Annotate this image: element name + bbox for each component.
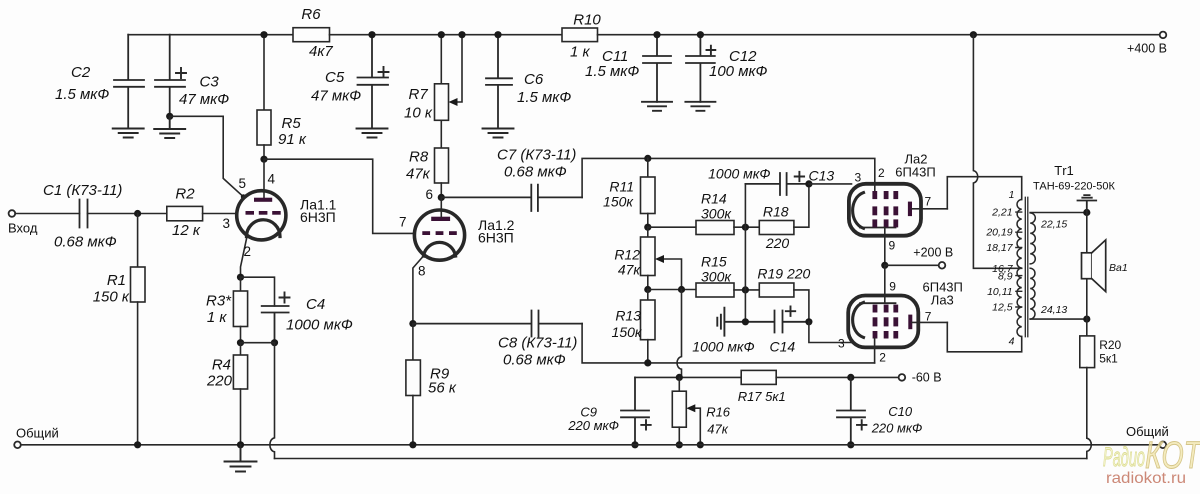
svg-text:R19 220: R19 220 [757, 266, 810, 282]
svg-text:9: 9 [889, 239, 896, 253]
svg-text:3: 3 [838, 337, 845, 351]
resistor R8 [440, 120, 442, 148]
svg-text:Радио: Радио [1103, 442, 1145, 472]
plus C10 [857, 420, 866, 429]
ground C11 [642, 102, 672, 111]
wire top rail right segment [598, 34, 1160, 36]
svg-text:220: 220 [206, 373, 233, 390]
node R7 wiper rail [458, 31, 465, 38]
wire top rail middle segment [330, 34, 563, 36]
svg-text:R16: R16 [706, 405, 731, 420]
node R16 top [676, 374, 683, 381]
resistor R15 [696, 283, 734, 297]
svg-text:С4: С4 [306, 296, 325, 313]
svg-text:1: 1 [1009, 189, 1015, 201]
node R1 bottom [134, 441, 141, 448]
svg-text:6П43П: 6П43П [895, 165, 935, 180]
node R16 bottom [676, 441, 683, 448]
svg-text:150к: 150к [603, 194, 634, 210]
wire anode La3 to transformer tap4 [947, 322, 1021, 351]
svg-text:100 мкФ: 100 мкФ [709, 63, 768, 80]
resistor R3 [240, 277, 242, 291]
svg-text:С13: С13 [809, 168, 835, 184]
svg-text:R8: R8 [409, 149, 429, 166]
resistor R10 [562, 28, 598, 42]
capacitor C11 [643, 35, 671, 102]
resistor R19 [759, 283, 794, 297]
ground C3 [154, 116, 185, 138]
wire pin9 La3 [884, 265, 886, 303]
resistor R13 [647, 290, 649, 301]
terminal Vhod (input) [9, 210, 16, 217]
ground inverted at secondary [1078, 195, 1097, 212]
cathode arc La3 [853, 302, 864, 337]
plus C12 [707, 46, 716, 55]
wire C4 bottom to common bus with hop [270, 343, 275, 459]
grid dashes La2 [872, 191, 898, 227]
speaker Ba1 [1086, 213, 1088, 320]
node R5 bottom / anode La1.1 [260, 156, 267, 163]
node R7 top [438, 31, 445, 38]
ground main [225, 445, 257, 472]
svg-text:220 мкФ: 220 мкФ [567, 418, 619, 433]
svg-text:R13: R13 [615, 308, 641, 324]
plus C5 [379, 67, 389, 77]
svg-text:12,5: 12,5 [992, 302, 1013, 314]
sideways ground C14 [717, 308, 724, 336]
svg-text:47к: 47к [406, 166, 431, 183]
svg-text:Вход: Вход [8, 221, 38, 236]
svg-text:150 к: 150 к [93, 289, 130, 306]
svg-text:5: 5 [238, 176, 246, 191]
wire anode La1.1 to grid La1.2 [264, 159, 415, 233]
svg-text:220 мкФ: 220 мкФ [871, 421, 923, 436]
svg-text:3: 3 [855, 171, 862, 185]
capacitor C2 [114, 35, 144, 129]
resistor R6 [293, 28, 330, 42]
resistor R4 [240, 343, 242, 355]
plus C14 [786, 307, 795, 316]
svg-text:22,15: 22,15 [1040, 219, 1067, 231]
wire second common bus [275, 458, 1087, 460]
svg-text:С1 (К73-11): С1 (К73-11) [43, 182, 122, 199]
wire C3 to pin 5 of La1.1 [170, 116, 244, 197]
svg-text:300к: 300к [701, 269, 732, 285]
ground C6 [483, 129, 514, 138]
wire +400 feed down with hop [973, 35, 1021, 269]
node C6 top [494, 31, 501, 38]
transformer core [1025, 197, 1028, 336]
node R9 bottom [409, 441, 416, 448]
node C9 bottom [631, 441, 638, 448]
plus C9 [641, 420, 650, 429]
svg-text:18,17: 18,17 [986, 242, 1013, 254]
svg-text:R14: R14 [701, 191, 727, 207]
svg-text:4к7: 4к7 [309, 43, 333, 60]
capacitor C4 [262, 306, 289, 343]
node pin5 [241, 194, 246, 199]
svg-text:R10: R10 [573, 12, 601, 29]
node C10 top [847, 374, 854, 381]
node pin6 [438, 194, 445, 201]
svg-text:R4: R4 [212, 357, 231, 374]
svg-text:+200 В: +200 В [913, 246, 953, 260]
wire R3 bottom to C4 bottom [241, 342, 275, 344]
svg-text:4: 4 [268, 172, 276, 187]
capacitor C12 [686, 35, 715, 102]
svg-text:2,21: 2,21 [991, 206, 1012, 218]
watermark RadioKOT [1103, 435, 1200, 487]
svg-text:1.5 мкФ: 1.5 мкФ [55, 86, 109, 103]
svg-text:Общий: Общий [16, 426, 59, 441]
grid dashes La1.2 [422, 231, 457, 235]
svg-text:R3*: R3* [206, 293, 232, 310]
wire cathode La1.2 down to R9 node [413, 257, 423, 324]
wire C8 to lower grid line [582, 324, 875, 363]
resistor R18 [759, 221, 794, 235]
svg-text:24,13: 24,13 [1040, 304, 1067, 316]
svg-text:6Н3П: 6Н3П [478, 230, 514, 246]
resistor R20 [1086, 319, 1088, 336]
transformer secondary winding 22,15 [1030, 213, 1035, 264]
anode bar La1.1 [254, 198, 272, 202]
terminal +200V [939, 262, 946, 269]
svg-text:7: 7 [925, 310, 932, 324]
wire to cathode pin3 La3 [809, 322, 852, 343]
wire junction to R15 [648, 289, 696, 291]
wire anode La2 pin7 [912, 208, 947, 210]
resistor R17 [741, 370, 776, 384]
node cathode La1.1 [237, 274, 244, 281]
capacitor C3 [155, 35, 185, 117]
transformer secondary winding 24,13 [1030, 268, 1035, 319]
terminal -60V [899, 374, 906, 381]
capacitor C10 [837, 377, 865, 444]
svg-text:5к1: 5к1 [1099, 352, 1118, 366]
node C12 top [697, 31, 704, 38]
potentiometer R7 [440, 35, 442, 84]
svg-text:1.5 мкФ: 1.5 мкФ [585, 63, 639, 80]
wire C13 feed vertical [744, 184, 746, 322]
pentode La2 envelope [849, 184, 921, 236]
wire bottom common rail [21, 444, 1160, 446]
svg-text:R15: R15 [701, 254, 727, 270]
svg-text:R18: R18 [763, 204, 789, 220]
svg-text:91 к: 91 к [278, 131, 307, 148]
wiper R12 [662, 259, 682, 290]
wiper R7 [456, 35, 462, 102]
svg-text:С8 (К73-11): С8 (К73-11) [498, 335, 577, 352]
node R4 bottom [237, 441, 244, 448]
svg-text:7: 7 [399, 215, 407, 230]
terminal Obschiy left [14, 442, 21, 449]
svg-text:300к: 300к [701, 206, 732, 222]
svg-text:1 к: 1 к [207, 309, 228, 326]
node cathode junction +200V [881, 262, 888, 269]
node C3 bottom [166, 113, 173, 120]
svg-text:47 мкФ: 47 мкФ [311, 88, 361, 105]
resistor R9 [412, 324, 414, 360]
svg-text:1 к: 1 к [570, 44, 591, 61]
wire pin6 to anode bar [440, 197, 442, 216]
wire to +200V terminal [885, 264, 939, 266]
capacitor C13 [745, 173, 809, 195]
wire C1 to R2 [88, 213, 167, 215]
svg-text:R17 5к1: R17 5к1 [738, 389, 786, 404]
wire grid La3 pin2 down [874, 339, 876, 363]
potentiometer R16 [678, 377, 680, 391]
svg-text:С2: С2 [71, 64, 91, 81]
svg-text:4: 4 [1009, 335, 1015, 347]
svg-text:С10: С10 [888, 404, 913, 419]
capacitor C8 [413, 311, 582, 337]
ground C2 [113, 129, 144, 138]
svg-text:С6: С6 [524, 71, 544, 88]
wire cathode La2 pin9 down [884, 228, 886, 266]
svg-text:12 к: 12 к [172, 222, 201, 239]
capacitor C14 [724, 311, 809, 333]
svg-text:0.68 мкФ: 0.68 мкФ [54, 234, 117, 251]
wiper R16 [694, 408, 700, 445]
node R3 bottom [237, 339, 244, 346]
capacitor C7 [441, 185, 582, 211]
svg-text:-60 В: -60 В [912, 371, 942, 385]
transformer primary tap stubs [1016, 212, 1022, 307]
wire cathode La1.1 down [241, 237, 248, 278]
capacitor C6 [486, 35, 512, 129]
svg-text:220: 220 [765, 235, 790, 251]
anode bar La2 [908, 202, 912, 217]
wire top +400V rail left segment [128, 34, 293, 36]
capacitor C5 [358, 35, 389, 129]
node speaker bottom [1083, 316, 1090, 323]
cathode top line La3 [860, 302, 896, 304]
cathode bottom line La2 [860, 227, 896, 229]
svg-text:R2: R2 [175, 186, 195, 203]
node +400 feed on rail [970, 31, 977, 38]
wire to cathode pin3 La2 [809, 183, 852, 185]
wire cathode node to C4 [241, 277, 275, 306]
svg-text:1.5 мкФ: 1.5 мкФ [517, 89, 571, 106]
node R11-R12 junction [644, 224, 651, 231]
wire R20 bottom to common bus with hop [1087, 368, 1092, 459]
node C4 bottom [271, 339, 278, 346]
svg-text:9: 9 [889, 280, 896, 294]
potentiometer R12 [647, 227, 649, 237]
wire pin4 lead [263, 159, 265, 198]
node R1 top [134, 210, 141, 217]
svg-text:0.68 мкФ: 0.68 мкФ [504, 164, 567, 181]
svg-text:С14: С14 [770, 339, 796, 355]
svg-text:R20: R20 [1099, 338, 1121, 352]
svg-text:R6: R6 [301, 6, 321, 23]
node R11 top on grid line [644, 155, 651, 162]
ground C12 [685, 102, 715, 111]
svg-text:150к: 150к [612, 324, 643, 340]
svg-text:1000 мкФ: 1000 мкФ [708, 166, 770, 182]
svg-text:10 к: 10 к [404, 105, 433, 122]
wire C7 to upper grid line [582, 158, 875, 197]
svg-text:R7: R7 [409, 86, 429, 103]
svg-text:С3: С3 [200, 74, 220, 91]
resistor R5 [263, 35, 265, 110]
svg-text:10,11: 10,11 [987, 286, 1013, 298]
wire secondary top to speaker [1030, 212, 1087, 214]
svg-text:R5: R5 [282, 115, 302, 132]
triode La1.1 envelope [237, 191, 286, 240]
cathode arc La2 [853, 193, 864, 229]
node R12-R13 junction [644, 286, 651, 293]
wire input to C1 [15, 213, 79, 215]
svg-text:С7 (К73-11): С7 (К73-11) [497, 147, 576, 164]
svg-text:ТАН-69-220-50К: ТАН-69-220-50К [1033, 180, 1115, 192]
wire R2 to grid La1.1 [203, 213, 238, 215]
cathode arc La1.1 [247, 220, 281, 237]
svg-text:47к: 47к [707, 422, 728, 437]
resistor R14 [648, 226, 696, 228]
node R5 top rail [260, 31, 267, 38]
node R9 top / C8 [409, 320, 416, 327]
svg-text:R12: R12 [614, 247, 640, 263]
node R16 wiper bottom [697, 441, 704, 448]
node C11 top [653, 31, 660, 38]
svg-text:Ла3: Ла3 [931, 293, 954, 308]
svg-text:3: 3 [222, 216, 230, 231]
svg-text:1000 мкФ: 1000 мкФ [286, 317, 353, 334]
anode bar La1.2 [431, 217, 450, 221]
svg-text:8: 8 [418, 264, 426, 279]
plus C4 [280, 293, 290, 303]
svg-text:radiokot.ru: radiokot.ru [1106, 470, 1186, 487]
grid dashes La3 [873, 305, 899, 339]
resistor R1 [137, 214, 139, 268]
svg-text:2: 2 [879, 351, 886, 365]
transformer Tr1 primary winding [1017, 200, 1022, 337]
cathode arc La1.2 [424, 242, 456, 256]
node R14-R18 junction [742, 224, 749, 231]
plus C3 [176, 68, 186, 78]
svg-text:R1: R1 [107, 272, 126, 289]
node C13 right [805, 180, 812, 187]
wire -60V bias line left part [635, 376, 741, 378]
capacitor C9 [621, 377, 649, 444]
resistor R2 [167, 206, 203, 220]
svg-text:7: 7 [925, 195, 932, 209]
plus C13 [795, 172, 804, 181]
svg-text:6: 6 [425, 187, 433, 202]
node wiper tap [678, 286, 685, 293]
svg-text:Тr1: Тr1 [1054, 163, 1074, 178]
svg-text:47 мкФ: 47 мкФ [179, 91, 229, 108]
node C14 right [805, 318, 812, 325]
ground C5 [357, 129, 388, 138]
svg-text:С5: С5 [325, 69, 345, 86]
svg-text:6Н3П: 6Н3П [300, 209, 336, 225]
wire secondary bottom to speaker [1030, 318, 1087, 320]
pentode La3 envelope [848, 296, 918, 348]
resistor R11 [647, 158, 649, 177]
triode La1.2 envelope [414, 210, 464, 260]
svg-text:1000 мкФ: 1000 мкФ [692, 339, 754, 355]
svg-text:56 к: 56 к [428, 380, 457, 397]
svg-text:2: 2 [244, 244, 252, 259]
node R13 bottom [644, 359, 651, 366]
node C14 left [742, 318, 749, 325]
terminal +400V [1160, 32, 1167, 39]
svg-text:20,19: 20,19 [985, 226, 1012, 238]
capacitor C1 [80, 200, 88, 228]
svg-text:Ва1: Ва1 [1109, 262, 1128, 274]
terminal Obschiy right [1160, 442, 1167, 449]
wire anode La2 to transformer tap1 [947, 177, 1021, 209]
svg-text:47к: 47к [618, 262, 642, 278]
wire anode La3 pin7 [912, 321, 947, 323]
node C10 bottom [847, 441, 854, 448]
svg-text:R11: R11 [609, 179, 634, 195]
node C5 top [368, 31, 375, 38]
svg-text:0.68 мкФ: 0.68 мкФ [503, 352, 566, 369]
node R15 right junction [742, 286, 749, 293]
svg-text:2: 2 [878, 166, 885, 180]
svg-text:8,9: 8,9 [998, 271, 1013, 283]
anode bar La3 [908, 315, 912, 330]
node speaker top [1083, 209, 1090, 216]
wire bias line down with hop [677, 290, 682, 378]
grid dashes La1.1 [246, 211, 281, 215]
svg-text:+400 В: +400 В [1127, 42, 1167, 56]
